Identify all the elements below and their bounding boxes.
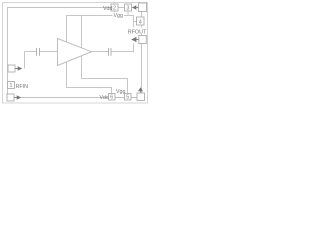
svg-text:RFOUT: RFOUT: [128, 29, 147, 35]
wire: top bias rail horizontal: [66, 15, 134, 17]
arrow from input pad into die: [15, 68, 18, 70]
left upper bond pad (RF input): [8, 65, 15, 72]
op-amp U1 (amplifier triangle): [58, 39, 92, 66]
svg-text:Vdd: Vdd: [100, 95, 109, 101]
pin 2 box: [111, 4, 118, 11]
background: [0, 0, 150, 107]
wire: vertical from rail to amp top (right): [81, 16, 83, 50]
wire: bottom bias right (amp bottom to pin 5): [82, 56, 128, 94]
capacitor C1 (input DC block): [36, 48, 38, 56]
wire: bottom bias left (amp bottom to pin 6): [67, 62, 112, 94]
left lower bond pad: [7, 94, 14, 101]
arrow into RFOUT node (from right pad): [136, 39, 139, 41]
outer figure border: [3, 3, 148, 104]
wire: stub from pin 3 to rail: [127, 11, 129, 16]
svg-text:5: 5: [126, 95, 129, 101]
label Vgg (pin 3): [113, 12, 125, 18]
svg-text:RFIN: RFIN: [16, 84, 29, 90]
svg-text:1: 1: [10, 83, 13, 89]
wire: right vertical upper segment: [133, 16, 135, 28]
wire: stub to pin 4 box: [134, 21, 137, 23]
wire: vertical from rail to amp top (left): [66, 16, 68, 44]
arrow from lower pad into die: [14, 97, 17, 99]
svg-text:Vgg: Vgg: [114, 13, 123, 19]
svg-text:4: 4: [139, 19, 142, 25]
svg-text:Vdd: Vdd: [103, 6, 112, 12]
wire: cap C2 to right riser: [111, 51, 134, 53]
pin 1 box: [8, 82, 15, 89]
pin 3 box: [125, 4, 132, 11]
svg-text:6: 6: [110, 95, 113, 101]
wire: amp output to cap C2: [92, 51, 109, 53]
wire: input to cap C1: [25, 51, 37, 53]
RFOUT bond pad: [139, 36, 147, 44]
pin 4 box: [137, 17, 145, 25]
wire: cap C1 to amp input: [40, 51, 57, 53]
svg-text:3: 3: [127, 6, 130, 12]
pin 5 box: [125, 94, 132, 101]
bottom-right bond pad: [137, 93, 145, 101]
svg-text:2: 2: [113, 6, 116, 12]
wire: stub from pin 2 to rail: [114, 11, 116, 16]
arrow into pin 3 (from top-right pad): [137, 7, 140, 9]
wire: right vertical lower segment (riser to RFOUT pad): [133, 44, 135, 53]
package outline: [8, 8, 142, 98]
top-right bond pad: [139, 3, 147, 12]
pin 6 box: [109, 94, 116, 101]
wire: RF input from pad arrow up to cap level: [24, 52, 26, 69]
label RFOUT (pin 4): [128, 28, 147, 35]
capacitor C2 (output DC block): [108, 48, 110, 56]
ground arrow above bottom-right pad: [138, 87, 143, 91]
